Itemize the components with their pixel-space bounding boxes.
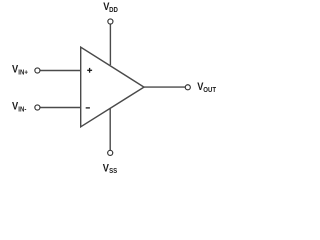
op-amp U1	[81, 47, 144, 127]
svg-text:IN-: IN-	[18, 106, 26, 114]
svg-text:SS: SS	[109, 168, 118, 176]
terminal VOUT	[185, 85, 190, 90]
svg-text:IN+: IN+	[18, 69, 28, 77]
op-amp - input marker	[86, 107, 90, 109]
wire VSS	[109, 108, 111, 150]
svg-text:OUT: OUT	[203, 87, 217, 95]
label VOUT	[197, 81, 217, 94]
wire VDD	[109, 24, 111, 65]
label VIN+	[12, 64, 28, 77]
label VDD	[103, 1, 118, 14]
op-amp + input marker	[87, 68, 92, 73]
svg-text:V: V	[12, 64, 18, 76]
label VSS	[103, 163, 118, 176]
label VIN-	[12, 101, 26, 114]
wire VOUT	[144, 86, 185, 88]
svg-text:DD: DD	[109, 7, 118, 15]
svg-text:V: V	[12, 101, 18, 113]
svg-text:V: V	[103, 163, 109, 175]
terminal VDD	[108, 19, 113, 24]
terminal VSS	[108, 150, 113, 155]
wire VIN+	[40, 70, 80, 72]
terminal VIN-	[35, 105, 40, 110]
wire VIN-	[40, 107, 80, 109]
terminal VIN+	[35, 68, 40, 73]
